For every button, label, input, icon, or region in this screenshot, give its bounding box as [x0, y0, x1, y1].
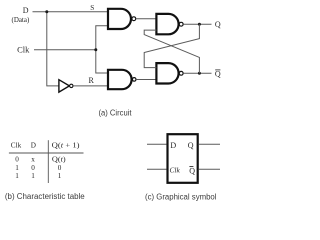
label Q output [215, 20, 221, 29]
table row 2: 1 0 0 [15, 164, 62, 172]
svg-text:Q(t): Q(t) [52, 156, 66, 164]
wire: Qbar feedback to U3 lower input [144, 30, 199, 73]
caption (b) Characteristic table [5, 192, 85, 201]
wire: D branch down to inverter [47, 12, 59, 86]
label D [23, 6, 29, 15]
nand U2 (bottom left) [108, 70, 136, 89]
caption (c) Graphical symbol [145, 192, 217, 201]
wire: Clk input [34, 49, 96, 51]
svg-text:(a) Circuit: (a) Circuit [99, 109, 133, 118]
svg-text:(c) Graphical symbol: (c) Graphical symbol [145, 192, 217, 201]
svg-text:Clk: Clk [17, 45, 29, 54]
wire: U4 output to Qbar [183, 72, 211, 74]
table row 3: 1 1 1 [15, 172, 62, 180]
label Clk [17, 45, 29, 54]
wire: U2 output to U4 input [136, 79, 156, 81]
svg-text:Clk: Clk [11, 142, 22, 150]
wire: D input to U1 [33, 11, 109, 13]
svg-text:x: x [31, 156, 35, 164]
symbol label Qbar [189, 167, 195, 176]
wire: Clk branch up to U1 [96, 26, 108, 50]
table header D [31, 142, 36, 150]
svg-text:S: S [90, 4, 94, 12]
svg-text:Q: Q [215, 20, 221, 29]
svg-text:Q(t + 1): Q(t + 1) [52, 141, 81, 149]
node: Clk junction [94, 48, 97, 51]
table header Q(t+1) [52, 141, 81, 149]
svg-text:Q: Q [188, 141, 194, 150]
svg-text:1: 1 [58, 172, 62, 180]
svg-text:0: 0 [15, 156, 19, 164]
wire: Clk branch down to U2 [96, 50, 108, 73]
D latch symbol box [168, 134, 198, 183]
table vertical rule [47, 140, 49, 183]
label Qbar output [215, 69, 221, 78]
svg-text:Q: Q [189, 167, 195, 176]
node: D junction [45, 10, 48, 13]
svg-text:0: 0 [58, 164, 62, 172]
symbol pin wire Q [199, 143, 220, 145]
node: Q junction [198, 23, 201, 26]
label (Data) [12, 15, 30, 24]
symbol pin wire Clk [147, 168, 167, 170]
svg-text:(b) Characteristic table: (b) Characteristic table [5, 192, 85, 201]
svg-text:1: 1 [31, 172, 35, 180]
label R [89, 76, 95, 85]
wire: U3 output to Q [183, 23, 211, 25]
svg-text:D: D [23, 6, 29, 15]
svg-text:D: D [31, 142, 36, 150]
svg-text:0: 0 [31, 164, 35, 172]
svg-text:(Data): (Data) [12, 15, 30, 24]
symbol pin wire Qbar [199, 168, 220, 170]
node: Qbar junction [198, 72, 201, 75]
svg-text:R: R [89, 76, 95, 85]
inverter (Clk' generator) [59, 80, 73, 92]
table header Clk [11, 142, 22, 150]
wire: inverter output R to U2 [73, 85, 108, 87]
symbol label Q [188, 141, 194, 150]
nand U4 (latch bottom) [156, 63, 183, 83]
nand U3 (latch top) [156, 14, 183, 34]
wire: U1 output to U3 input [136, 18, 157, 20]
svg-text:1: 1 [15, 164, 19, 172]
symbol pin wire D [147, 143, 167, 145]
caption (a) Circuit [99, 109, 133, 118]
label S [90, 4, 94, 12]
svg-text:D: D [170, 141, 176, 150]
symbol label Clk (italic) [170, 166, 181, 175]
table horizontal rule [9, 152, 84, 154]
nand U1 (top left) [108, 9, 136, 29]
svg-text:Q: Q [215, 69, 221, 78]
table row 1: 0 x Q(t) [15, 156, 66, 164]
wire: Q feedback to U4 upper input [144, 24, 199, 67]
svg-text:1: 1 [15, 172, 19, 180]
svg-text:Clk: Clk [170, 166, 181, 175]
symbol label D [170, 141, 176, 150]
